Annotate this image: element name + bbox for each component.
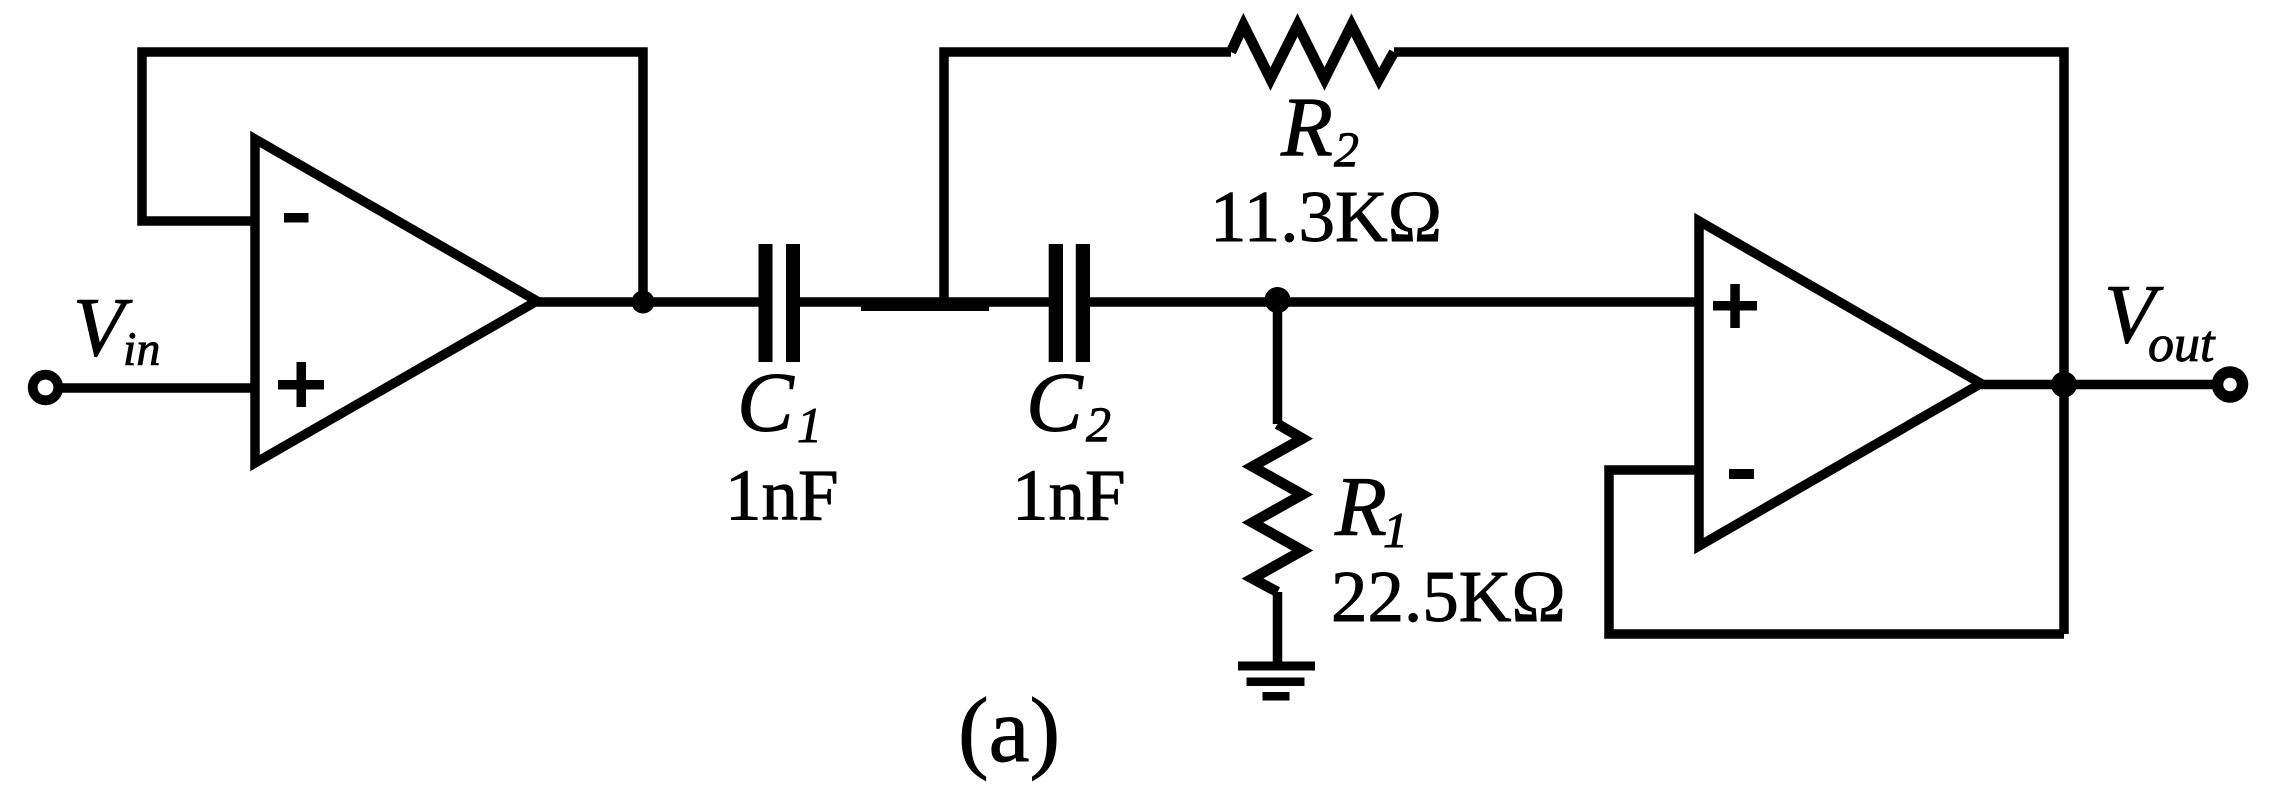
svg-text:1nF: 1nF: [725, 455, 839, 536]
op-amp U1: [255, 139, 537, 463]
wire op-amp U2 feedback (inverting input to output): [1609, 470, 2064, 634]
wire node between C1 and C2: [798, 297, 1051, 307]
svg-text:2: 2: [1334, 121, 1359, 177]
svg-text:R: R: [1280, 80, 1333, 174]
svg-text:2: 2: [1086, 396, 1111, 452]
op-amp U1 feedback wire (inverting input to output): [142, 52, 643, 302]
wire R1 bottom to ground: [1273, 592, 1283, 664]
svg-text:1nF: 1nF: [1012, 455, 1126, 536]
op-amp U2: [1699, 221, 1981, 546]
op-amp U1 minus symbol: [284, 213, 309, 223]
node B junction dot: [1265, 287, 1291, 313]
wire R2 right end to output node: [1394, 52, 2064, 634]
output node junction dot: [2051, 372, 2077, 398]
output terminal Vout: [2218, 372, 2243, 397]
svg-text:(a): (a): [958, 679, 1060, 781]
svg-text:C: C: [737, 356, 795, 450]
wire node B down to R1: [1273, 302, 1283, 424]
wire junction up to R2: [944, 52, 1231, 306]
op-amp U2 minus symbol: [1729, 469, 1754, 479]
svg-text:22.5KΩ: 22.5KΩ: [1331, 556, 1566, 637]
wire overlap segment (thicker draw): [861, 298, 989, 311]
capacitor C1 plates: [759, 244, 801, 362]
svg-text:1: 1: [797, 397, 822, 453]
wire input Vin to op-amp U1 + input: [46, 383, 255, 393]
op-amp U2 plus symbol: [1713, 284, 1757, 328]
capacitor C2 plates: [1049, 244, 1090, 362]
svg-text:out: out: [2148, 316, 2216, 373]
resistor R1 zigzag: [1253, 424, 1303, 592]
wire U2 output to Vout terminal: [1981, 380, 2214, 390]
op-amp U1 plus symbol: [278, 362, 324, 407]
svg-text:R: R: [1334, 460, 1387, 554]
svg-text:C: C: [1026, 356, 1084, 450]
resistor R2 zigzag: [1231, 25, 1394, 79]
svg-text:1: 1: [1383, 502, 1408, 558]
wire U1 output to node A: [537, 297, 762, 307]
node A junction dot: [632, 291, 655, 314]
wire C2 to op-amp U2 + input: [1088, 297, 1699, 307]
svg-text:11.3KΩ: 11.3KΩ: [1210, 176, 1442, 257]
input terminal Vin: [33, 375, 59, 401]
ground symbol: [1238, 662, 1315, 701]
svg-text:in: in: [123, 323, 160, 376]
